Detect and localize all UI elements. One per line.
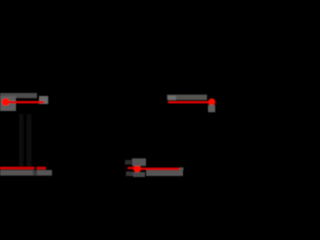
value label text under wire W4b [146,170,183,176]
wire W3a/W3b junction notch (dark) [34,167,37,170]
node post P1 (unconnected terminal, left) [2,98,10,106]
label corner piece at right end of wire W4b [180,167,184,170]
node post P3 (bottom junction dot) [133,165,141,173]
label blob above node post P3 [132,158,146,166]
wire W2 (right horizontal wire) [168,101,213,103]
node VOUT label text (right value label above wire) [167,95,207,100]
node VOUT label text dense part [168,96,176,100]
wire W4a (short segment left of bottom junction) [128,167,134,169]
label blob below node post P3 [133,172,145,177]
value label text under wires W3a/W3b [0,170,52,176]
label block below post P2 [208,105,215,112]
faint component body outline (vertical trace 2, very dark) [27,114,32,166]
faint label blob left of node post P3 [125,160,132,165]
wire W3a (bottom-left wire segment) [0,167,34,170]
node post P2 (unconnected terminal, right) [208,98,215,105]
component label box (gray square at right end of wire W1) [39,96,48,104]
faint component body outline (vertical trace 1, very dark) [19,114,23,166]
node VIN label text block (clipped at left edge, around post) [0,96,16,111]
wire W3b (bottom-left wire segment 2) [37,167,46,170]
value label text gap [33,170,37,176]
node VIN label text (left value label above wire) [0,93,37,98]
wire W1 (left horizontal wire) [4,101,44,103]
faint label blob below-left of node post P3 [126,171,133,176]
wire W4b (bottom-right wire segment) [141,168,180,170]
